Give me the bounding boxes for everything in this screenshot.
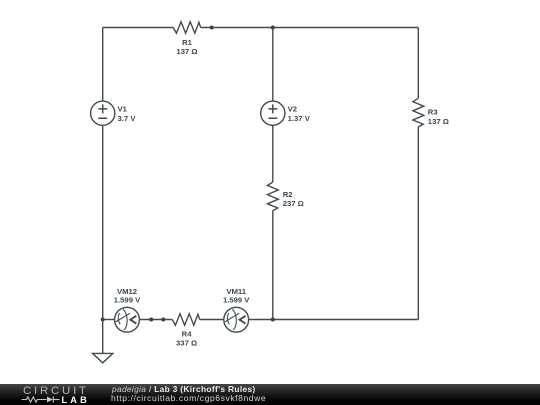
wire middle branch upper: [272, 28, 274, 102]
junction dot left of R4: [149, 318, 153, 322]
voltmeter VM11: [224, 307, 249, 332]
wire bottom segment between R4 and VM11: [200, 319, 224, 321]
resistor R3: [413, 98, 424, 127]
voltmeter VM12: [115, 307, 140, 332]
voltage source V2: [261, 101, 285, 125]
resistor R4: [172, 314, 200, 325]
wire middle branch between V2 and R2: [272, 125, 274, 182]
wire top-left horizontal segment: [103, 27, 174, 29]
junction dot at top of middle branch: [271, 26, 275, 30]
footer bar: [0, 384, 540, 405]
svg-text:3.7 V: 3.7 V: [118, 114, 137, 123]
CircuitLab logo: [0, 384, 100, 405]
resistor R2: [267, 182, 278, 211]
wire bottom segment from ground node to VM12: [103, 319, 115, 321]
junction dot after R1: [210, 26, 214, 30]
svg-text:V2: V2: [288, 105, 297, 114]
svg-text:137 Ω: 137 Ω: [428, 117, 449, 126]
wire ground stem: [102, 320, 104, 354]
wire top-right horizontal segment: [201, 27, 419, 29]
junction dot second left of R4: [161, 318, 165, 322]
svg-text:1.599 V: 1.599 V: [114, 296, 141, 305]
voltage source V1: [91, 101, 115, 125]
junction dot at ground node: [101, 318, 105, 322]
svg-text:R2: R2: [283, 190, 293, 199]
svg-text:1.599 V: 1.599 V: [223, 296, 250, 305]
caption line 2: [111, 393, 266, 403]
svg-text:V1: V1: [118, 105, 128, 114]
svg-text:1.37 V: 1.37 V: [288, 114, 311, 123]
resistor R1: [173, 22, 201, 33]
wire left branch lower: [102, 125, 104, 319]
wire bottom segment from VM11 to right branch: [249, 319, 419, 321]
wire right branch lower: [417, 127, 419, 320]
wire right branch upper: [417, 28, 419, 99]
svg-text:337 Ω: 337 Ω: [176, 338, 197, 347]
svg-text:R3: R3: [428, 107, 438, 116]
caption line 1: [112, 384, 256, 394]
wire bottom segment between VM12 and R4: [139, 319, 172, 321]
svg-text:R1: R1: [182, 38, 193, 47]
svg-text:137 Ω: 137 Ω: [176, 47, 197, 56]
svg-text:R4: R4: [182, 330, 193, 339]
wire left branch upper: [102, 28, 104, 102]
ground: [93, 353, 113, 363]
wire middle branch lower: [272, 211, 274, 320]
svg-text:LAB: LAB: [62, 395, 90, 405]
svg-text:237 Ω: 237 Ω: [283, 199, 304, 208]
junction dot at bottom of middle branch: [271, 318, 275, 322]
